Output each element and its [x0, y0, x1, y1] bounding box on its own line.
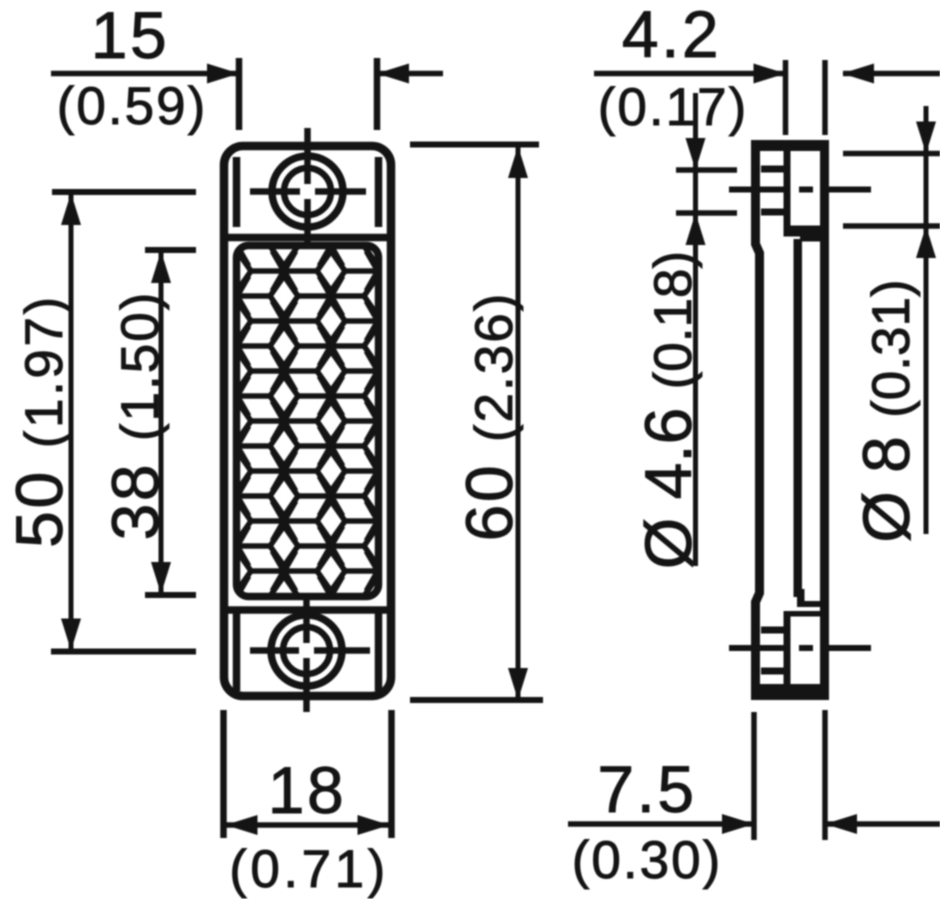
dim 18 line	[226, 822, 390, 828]
side view middle bar bottom jog	[797, 589, 805, 601]
svg-text:18: 18	[268, 753, 346, 827]
svg-text:(0.30): (0.30)	[572, 831, 722, 890]
side view top notch wall	[784, 150, 791, 226]
dim 15 extension lines	[239, 58, 377, 130]
dim 4.2 extension lines	[786, 60, 826, 135]
arrow dim8 top	[916, 122, 936, 154]
front view top face ticks	[237, 157, 379, 227]
arrow dim50 top	[61, 193, 81, 225]
side view top notch sub bar	[800, 237, 821, 242]
side view bottom upper bar	[797, 601, 821, 607]
dim 7.5 extension lines	[754, 710, 825, 840]
arrow dim7.5 right	[825, 814, 857, 834]
arrow dim4.2 right	[842, 64, 874, 84]
top hole inner circle	[284, 168, 331, 215]
side view top cap	[751, 140, 829, 151]
dim 8 leader line	[924, 106, 929, 534]
side view middle bar	[794, 239, 803, 597]
arrow dim18 left	[226, 815, 258, 835]
side view bottom rungs	[761, 630, 785, 671]
dim 18 extension lines	[224, 710, 392, 838]
dim 4.2 line left	[594, 71, 783, 77]
front view bottom face ticks	[237, 612, 379, 691]
front view bottom separator	[225, 606, 390, 614]
arrow dim15 right	[377, 64, 409, 84]
reflector panel fill pattern	[240, 249, 375, 593]
dim 4.6 leader line	[693, 93, 698, 566]
arrow dim38 bottom	[151, 562, 171, 594]
arrow dim4.6 bottom	[686, 213, 706, 245]
svg-text:7.5: 7.5	[597, 752, 696, 826]
dim 15 line left	[51, 71, 236, 77]
top hole centerlines	[250, 128, 366, 247]
arrow dim60 bottom	[508, 668, 528, 700]
dim 38 extension ticks	[145, 250, 196, 595]
side view top notch bottom bar	[784, 226, 827, 237]
dim 7.5 line right	[827, 821, 940, 827]
svg-text:(0.17): (0.17)	[598, 78, 748, 137]
svg-text:60 (2.36): 60 (2.36)	[452, 292, 526, 542]
top hole outer circle	[272, 156, 343, 227]
side view bottom notch bar	[784, 611, 822, 617]
svg-text:(0.59): (0.59)	[57, 77, 207, 136]
arrow dim7.5 left	[722, 814, 754, 834]
side view bottom cap	[751, 684, 829, 700]
bottom hole outer circle	[271, 615, 342, 686]
dim 4.2 line right	[843, 71, 940, 77]
side view right edge	[820, 140, 829, 700]
dim 38 line	[159, 252, 164, 593]
side view top rungs	[761, 169, 785, 212]
arrow dim60 top	[508, 146, 528, 178]
side view bottom notch wall	[784, 611, 791, 684]
side view left edge	[756, 140, 760, 700]
svg-text:4.2: 4.2	[622, 0, 721, 71]
dim 50 line	[69, 194, 74, 650]
dim 15 line right	[379, 71, 443, 77]
side view top hole centerline	[729, 187, 871, 193]
arrow dim18 right	[358, 815, 390, 835]
front view body outline	[224, 146, 391, 696]
svg-text:50 (1.97): 50 (1.97)	[2, 294, 76, 548]
dim 4.6 ticks	[676, 170, 737, 213]
arrow dim15 left	[207, 64, 239, 84]
svg-text:38 (1.50): 38 (1.50)	[98, 291, 172, 541]
bottom hole centerlines	[250, 598, 370, 712]
reflector panel border	[237, 246, 379, 597]
arrow dim4.2 left	[754, 64, 786, 84]
svg-text:Ø 4.6 (0.18): Ø 4.6 (0.18)	[631, 251, 705, 569]
arrow dim8 bottom	[916, 226, 936, 258]
dim 8 extension lines	[843, 154, 940, 227]
arrow dim38 top	[151, 251, 171, 283]
svg-text:(0.71): (0.71)	[229, 840, 388, 899]
arrow dim4.6 top	[686, 138, 706, 170]
bottom hole inner circle	[283, 627, 330, 674]
svg-text:15: 15	[91, 0, 169, 72]
side view bottom hole centerline	[729, 645, 871, 651]
arrow dim50 bottom	[61, 619, 81, 651]
dim 50 extension lines	[51, 192, 196, 652]
svg-text:Ø 8 (0.31): Ø 8 (0.31)	[849, 279, 923, 542]
dim 60 line	[516, 147, 521, 699]
dim 7.5 line left	[568, 821, 752, 827]
dim 60 extension lines	[410, 145, 543, 701]
front view top separator	[225, 234, 390, 242]
